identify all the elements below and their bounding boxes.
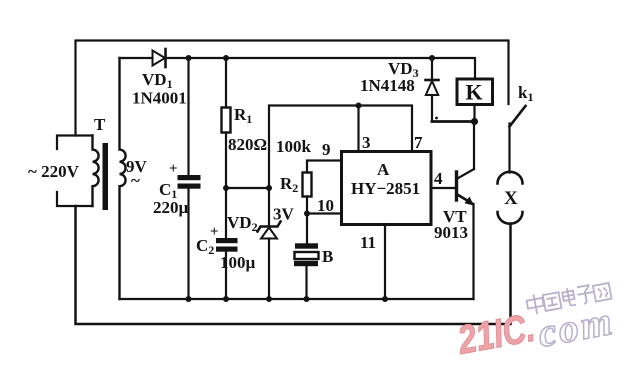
svg-text:+: + xyxy=(210,224,219,240)
svg-text:100µ: 100µ xyxy=(220,253,256,272)
piezo sounder B xyxy=(294,214,319,300)
svg-text:X: X xyxy=(504,188,518,209)
svg-text:+: + xyxy=(169,161,178,177)
zener diode VD2 xyxy=(258,188,281,299)
relay coil K box xyxy=(457,79,493,105)
node relay collector xyxy=(471,118,478,125)
svg-text:~ 220V: ~ 220V xyxy=(28,162,80,181)
svg-text:~: ~ xyxy=(131,171,140,190)
wire dc ground rail xyxy=(120,298,474,300)
svg-text:1N4001: 1N4001 xyxy=(132,89,187,108)
capacitor C1 xyxy=(178,58,201,299)
wire dc top rail right segment xyxy=(166,58,476,79)
node 3V C2-R1 xyxy=(223,185,229,191)
resistor R1 xyxy=(222,58,231,188)
transformer T secondary winding xyxy=(120,58,126,299)
node pin10 R2-B xyxy=(304,211,310,217)
svg-text:R1: R1 xyxy=(234,105,252,126)
wire VD3 to relay node xyxy=(432,120,475,123)
resistor R2 xyxy=(303,161,342,214)
node 3V VD2 xyxy=(266,185,272,191)
wire pin 3 xyxy=(357,106,359,152)
node stray dot xyxy=(435,117,438,120)
switch k1 blade xyxy=(510,106,526,127)
diode VD1 xyxy=(153,49,166,67)
svg-text:com: com xyxy=(534,298,617,356)
wire k1 to X xyxy=(508,124,510,173)
wire dc top rail left segment xyxy=(120,57,153,59)
wire pin 4 xyxy=(431,187,457,189)
svg-text:3V: 3V xyxy=(273,205,295,224)
node rail VD3 xyxy=(429,55,435,61)
svg-text:B: B xyxy=(322,247,333,266)
svg-text:K: K xyxy=(466,80,483,105)
node rail R1 xyxy=(223,55,229,61)
svg-text:T: T xyxy=(94,115,106,134)
node ground C1 xyxy=(186,296,192,302)
watermark 21IC.com logo xyxy=(454,281,618,363)
svg-text:R2: R2 xyxy=(280,174,298,195)
wire pin 11 xyxy=(384,225,386,300)
wire K bottom to collector node xyxy=(473,105,475,122)
svg-text:k1: k1 xyxy=(518,83,533,104)
op-amp U1 : IC A HY-2851 box xyxy=(342,152,432,225)
node ground VD2 xyxy=(266,296,272,302)
svg-text:1N4148: 1N4148 xyxy=(360,76,415,95)
svg-text:820Ω: 820Ω xyxy=(228,135,267,154)
node pin3 tap xyxy=(356,103,362,109)
svg-text:10: 10 xyxy=(317,196,334,215)
mains socket bottom prong xyxy=(57,192,93,206)
diode VD3 xyxy=(426,58,439,122)
svg-text:HY−2851: HY−2851 xyxy=(351,179,420,198)
transformer T core xyxy=(103,143,109,210)
svg-text:9: 9 xyxy=(322,140,331,159)
svg-text:VD2: VD2 xyxy=(227,213,258,234)
svg-text:11: 11 xyxy=(360,233,376,252)
svg-text:21IC.: 21IC. xyxy=(454,306,539,363)
capacitor C2 xyxy=(216,188,238,299)
watermark chinese chars xyxy=(526,281,612,316)
load X top arc xyxy=(498,172,523,184)
node ground B xyxy=(304,296,310,302)
node ground pin11 xyxy=(382,296,388,302)
wire outer mains loop top xyxy=(76,41,509,136)
svg-text:9013: 9013 xyxy=(434,223,468,242)
transistor VT 9013 xyxy=(457,122,475,300)
wire 3V node link xyxy=(226,187,269,189)
svg-text:7: 7 xyxy=(414,133,423,152)
svg-text:4: 4 xyxy=(434,169,443,188)
svg-text:100k: 100k xyxy=(276,137,312,156)
wire X to outer bottom rail xyxy=(76,206,511,324)
transformer T primary winding xyxy=(93,136,99,207)
load X bottom arc xyxy=(498,212,523,224)
svg-text:A: A xyxy=(377,160,390,179)
wire 3V node riser to pins 3 and 7 xyxy=(269,106,412,189)
node rail VD1-C1 xyxy=(186,55,192,61)
svg-text:220µ: 220µ xyxy=(153,198,189,217)
node ground C2 xyxy=(223,296,229,302)
svg-text:3: 3 xyxy=(362,133,371,152)
mains socket top prong xyxy=(57,136,93,150)
